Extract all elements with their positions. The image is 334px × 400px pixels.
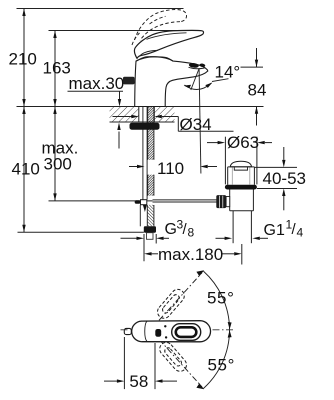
pop-up waste assembly xyxy=(216,161,257,243)
pop-up rod horizontal xyxy=(153,200,217,202)
dimension 40-53 xyxy=(255,147,306,210)
body dome top xyxy=(136,57,173,61)
left tab xyxy=(123,77,135,85)
aerator dark xyxy=(189,63,199,69)
pull rod joint block + barrel xyxy=(135,200,147,212)
dashed rotated handles xyxy=(155,287,189,374)
14 degree angle xyxy=(184,62,241,173)
diameter 34 arrows + leader xyxy=(113,115,234,134)
reference line supply end (410 bottom) xyxy=(18,231,144,233)
svg-text:110: 110 xyxy=(157,159,184,178)
svg-text:14°: 14° xyxy=(215,62,241,81)
handle solid xyxy=(134,30,203,58)
G3/8 dimension xyxy=(121,218,195,262)
svg-text:210: 210 xyxy=(9,50,37,69)
dimension max.300 xyxy=(42,107,79,201)
dimension 110 xyxy=(129,159,217,178)
reference line top (lever raised height) xyxy=(17,8,184,10)
svg-text:max.180: max.180 xyxy=(158,245,223,264)
diameter 63 dimension xyxy=(207,133,272,184)
mounting deck surface line xyxy=(17,106,264,108)
lower tube xyxy=(229,190,231,211)
dimension 84 xyxy=(241,48,267,126)
svg-text:Ø63: Ø63 xyxy=(227,133,259,152)
svg-text:410: 410 xyxy=(12,160,40,179)
svg-text:G: G xyxy=(165,221,177,238)
knurled nut xyxy=(216,195,226,208)
flexible hose xyxy=(140,205,154,227)
svg-text:55°: 55° xyxy=(207,289,235,308)
plug cap xyxy=(230,161,251,167)
svg-text:G1: G1 xyxy=(264,222,285,239)
dimension max.180 xyxy=(144,244,242,265)
mounting nut xyxy=(130,123,160,130)
dimension 210 xyxy=(9,9,37,107)
tailpipe xyxy=(232,211,234,243)
dashed raised lever xyxy=(132,10,187,45)
svg-text:Ø34: Ø34 xyxy=(180,115,212,134)
boss xyxy=(226,197,230,207)
svg-text:8: 8 xyxy=(188,226,195,240)
shank rod + thread below deck xyxy=(143,107,154,200)
dimension 163 xyxy=(43,31,71,107)
svg-text:58: 58 xyxy=(129,372,148,391)
G1 1/4 dimension xyxy=(216,218,304,241)
deck cross-section hatched slab xyxy=(110,107,175,123)
label max.30 with leader xyxy=(68,74,125,149)
upper body tube xyxy=(227,167,229,185)
svg-text:84: 84 xyxy=(248,81,267,100)
dimension 410 xyxy=(12,107,40,233)
reference line handle top (163) xyxy=(49,30,198,32)
centerline xyxy=(121,329,234,331)
dimension 58 xyxy=(104,337,177,391)
svg-text:163: 163 xyxy=(43,59,71,78)
svg-text:4: 4 xyxy=(297,226,304,240)
svg-text:55°: 55° xyxy=(208,356,236,375)
faucet body (solid) xyxy=(123,30,208,106)
G3/8 nut xyxy=(144,226,156,232)
svg-text:40-53: 40-53 xyxy=(263,169,306,188)
svg-text:max.30: max.30 xyxy=(69,74,125,93)
svg-text:300: 300 xyxy=(44,155,72,174)
reference line hose/rod level (max.300 bottom) xyxy=(49,200,153,202)
top view body xyxy=(124,321,210,342)
flange xyxy=(225,185,257,190)
55 deg rays + arc xyxy=(159,270,235,389)
